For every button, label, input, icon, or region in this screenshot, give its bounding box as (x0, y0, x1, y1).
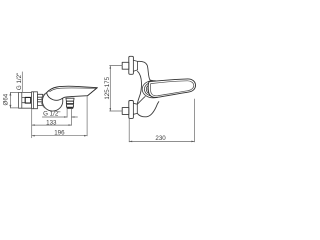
spout (side) (47, 86, 98, 100)
spout end extension (86, 96, 88, 136)
bottom square nut (122, 108, 129, 115)
133 dimension line (32, 124, 72, 126)
spout inner blade line (50, 88, 96, 92)
body outline top (138, 61, 153, 80)
svg-text:196: 196 (54, 130, 65, 137)
svg-text:133: 133 (46, 119, 57, 126)
dia64 arrows (9, 93, 11, 96)
125-175 arrows (110, 66, 112, 69)
body inner arc (41, 93, 46, 109)
svg-text:230: 230 (155, 135, 166, 142)
hex nut with ridges (38, 94, 43, 105)
G 1/2" top label leader (21, 72, 23, 92)
connector body at wall (32, 92, 38, 109)
125-175 dimension line (109, 66, 111, 111)
svg-text:G 1/2": G 1/2" (43, 111, 60, 118)
bottom connector flange (129, 101, 134, 119)
wall extension line (31, 109, 33, 137)
196 dimension line (32, 135, 87, 137)
svg-text:G 1/2": G 1/2" (16, 73, 23, 90)
body left contour (137, 71, 141, 103)
dia 64 extension lines (10, 92, 18, 94)
mixer body (circle, side) (42, 91, 62, 111)
G1/2 arrows (64, 116, 67, 118)
top square nut (122, 62, 129, 69)
body neck to handle (137, 96, 145, 104)
outlet trapezoid (66, 98, 74, 101)
body bottom bulge (137, 102, 159, 117)
top collar (133, 60, 137, 71)
aerator ring 1 (66, 101, 73, 103)
handle inner contour (150, 81, 193, 96)
196 arrows (32, 135, 35, 137)
wall flange (escutcheon) (19, 92, 32, 108)
handle lever (148, 79, 195, 98)
133 arrows (32, 124, 35, 126)
bottom collar (133, 103, 137, 114)
230 dimension line (129, 140, 194, 142)
230 extension lines (128, 119, 130, 142)
aerator ring 2 (67, 104, 74, 107)
230 arrows (129, 141, 132, 143)
G 1/2" bottom underline + arrows (42, 116, 67, 118)
square union nut (25, 97, 31, 103)
svg-text:Ø64: Ø64 (2, 93, 9, 105)
dia 64 dimension line (9, 93, 11, 108)
handle ball arcs (142, 81, 164, 98)
125-175 extension lines (110, 65, 123, 67)
aerator dark end (67, 107, 73, 109)
svg-text:125-175: 125-175 (104, 76, 111, 99)
outlet extension lines (66, 109, 68, 118)
spout tip cut (88, 88, 98, 96)
top connector flange (129, 56, 134, 74)
